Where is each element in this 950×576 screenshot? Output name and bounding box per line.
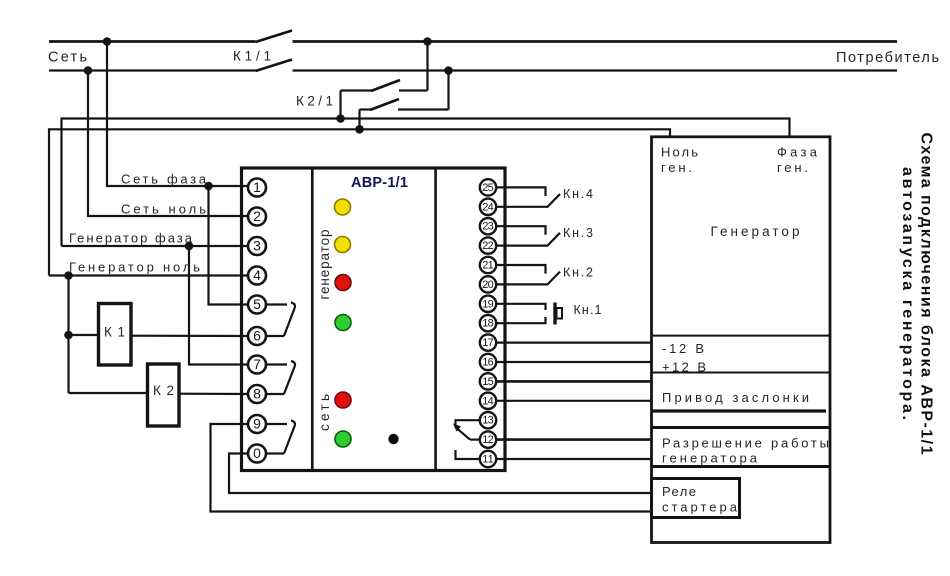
contact 13-12 with arrow (456, 420, 481, 439)
svg-text:Кн.2: Кн.2 (563, 266, 593, 280)
pin numbers 25-11 (482, 182, 494, 466)
contact K2/1 upper: left stub (341, 89, 373, 91)
node: junction on phase line (x=107) (103, 37, 112, 46)
svg-text:24: 24 (482, 201, 494, 213)
block АВР-1/1 left divider (311, 168, 314, 471)
svg-text:Генератор фаза: Генератор фаза (69, 231, 193, 246)
wire: junction down feeding K1 and K2 coils (67, 276, 69, 394)
wire: mains neutral down to terminal 2 (88, 71, 248, 217)
generator box divider above enable section (652, 426, 831, 429)
terminals 1-10 (248, 179, 266, 463)
svg-text:19: 19 (482, 298, 494, 310)
pin numbers 1-10 (253, 179, 261, 461)
wire: K2/1 upper to phase junction (426, 42, 428, 91)
terminal 15 (480, 373, 496, 389)
svg-text:22: 22 (482, 240, 494, 252)
terminal 8 (248, 385, 266, 403)
terminal 4 (248, 267, 266, 285)
relay coil K1 (99, 304, 132, 366)
wire: K2/1 upper down to generator phase bus (339, 91, 341, 119)
wire: K2/1 lower down to generator neutral bus (358, 110, 360, 130)
contact K2/1 lower: right stub (398, 108, 449, 110)
terminal 16 (480, 354, 496, 370)
svg-text:13: 13 (482, 415, 494, 427)
svg-text:Кн.4: Кн.4 (563, 187, 593, 201)
contact between terminals 7-8 (266, 361, 295, 394)
terminal 11 (480, 451, 496, 467)
terminal 21 (480, 257, 496, 273)
wire: terminal 14 to damper drive (496, 400, 652, 402)
wire: generator phase to terminal 3 (62, 245, 249, 247)
svg-text:Сеть ноль: Сеть ноль (121, 202, 206, 217)
terminal 17 (480, 334, 496, 350)
terminal 5 (248, 296, 266, 314)
wire: generator neutral to terminal 4 (49, 274, 248, 276)
button Кн.2 wires (496, 265, 560, 285)
wire: to K2 coil (69, 392, 148, 394)
wire: terminal 15 to damper drive (496, 380, 652, 383)
svg-text:К2/1: К2/1 (296, 94, 333, 109)
stub from terminal 11 (456, 450, 481, 459)
block АВР-1/1 outline (242, 168, 506, 471)
svg-text:7: 7 (253, 356, 261, 372)
contact K2/1 upper: blade (371, 80, 400, 91)
node: junction on Генератор ноль wire (64, 271, 73, 280)
terminal 10 (248, 445, 266, 463)
svg-text:0: 0 (253, 445, 261, 461)
starter relay box (652, 479, 740, 518)
wire: generator neutral bus (y=129.3) (49, 129, 670, 275)
wire: mains neutral line to consumer (293, 69, 898, 71)
terminal 19 (480, 296, 496, 312)
svg-text:20: 20 (482, 279, 494, 291)
svg-text:5: 5 (253, 296, 261, 312)
button Кн.1 actuator (557, 308, 563, 319)
button Кн.4 wires (496, 187, 560, 207)
svg-text:генератора: генератора (662, 451, 758, 466)
terminal 24 (480, 199, 496, 215)
svg-text:2: 2 (253, 208, 261, 224)
wire: junction down to terminal 5 (209, 186, 249, 305)
wire: terminal 17 to -12V (496, 342, 652, 344)
wire: junction to K1 coil (69, 334, 99, 336)
node: junction on generator phase bus (336, 114, 345, 123)
LED yellow 1 (335, 199, 351, 215)
svg-text:Потребитель: Потребитель (836, 50, 939, 66)
wire: K1 coil to terminal 6 (131, 335, 248, 337)
black indicator dot (388, 434, 398, 444)
svg-text:Привод заслонки: Привод заслонки (662, 390, 809, 405)
svg-text:18: 18 (482, 318, 494, 330)
svg-text:23: 23 (482, 221, 494, 233)
svg-text:1: 1 (253, 179, 261, 195)
wire: terminal 9 to starter relay (211, 424, 653, 512)
svg-text:6: 6 (253, 328, 261, 344)
node: junction at K1 coil row (64, 331, 73, 340)
button Кн.1 wires (496, 304, 546, 323)
wire: K2 coil to terminal 8 (179, 393, 248, 395)
terminal 1 (248, 179, 266, 197)
contact between terminals 5-6 (266, 303, 295, 337)
LED yellow 2 (335, 237, 351, 253)
svg-text:9: 9 (253, 416, 261, 432)
generator box outline (652, 137, 831, 543)
svg-text:14: 14 (482, 395, 494, 407)
node: junction on Сеть фаза wire (204, 182, 213, 191)
svg-text:Кн.3: Кн.3 (563, 226, 593, 240)
node: junction on generator neutral bus (355, 125, 364, 134)
contact between terminals 9-10 (266, 421, 295, 454)
svg-text:Кн.1: Кн.1 (574, 303, 602, 317)
terminal 13 (480, 412, 496, 428)
wire: mains phase line to consumer (293, 40, 898, 43)
wire: junction down to terminal 7 (189, 246, 248, 365)
button Кн.1 plate (553, 303, 556, 325)
svg-text:генератор: генератор (317, 230, 332, 300)
generator box divider above -12V (652, 335, 831, 337)
terminals 25-11 (480, 179, 496, 467)
terminal 7 (248, 356, 266, 374)
arrowhead on contact 13-12 (453, 424, 461, 432)
svg-text:16: 16 (482, 357, 494, 369)
node: junction on neutral line (x=88) (84, 66, 93, 75)
wire: K2/1 lower to neutral junction (447, 71, 449, 110)
svg-text:АВР-1/1: АВР-1/1 (351, 175, 408, 191)
svg-text:Сеть: Сеть (48, 50, 87, 66)
contact K1/1 upper blade (256, 31, 293, 43)
relay coil K2 (148, 364, 180, 426)
terminal 25 (480, 179, 496, 195)
wire: mains phase line top-left (49, 40, 256, 43)
svg-text:Генератор: Генератор (711, 224, 800, 239)
wire: terminal 16 to +12V (496, 361, 652, 363)
svg-text:12: 12 (482, 434, 494, 446)
svg-text:Сеть фаза: Сеть фаза (121, 172, 207, 187)
svg-text:Схема подключения блока АВР-1/: Схема подключения блока АВР-1/1 (918, 133, 935, 455)
terminal 3 (248, 237, 266, 255)
svg-text:Реле: Реле (662, 484, 696, 499)
contact K2/1 upper: right stub (399, 89, 428, 91)
terminal 23 (480, 218, 496, 234)
node: junction on phase line (x=427.5) (423, 37, 432, 46)
LED green 2 (335, 431, 351, 447)
terminal 6 (248, 327, 266, 345)
svg-text:15: 15 (482, 376, 494, 388)
svg-text:17: 17 (482, 337, 494, 349)
node: junction on neutral line (x=448.5) (444, 66, 453, 75)
svg-text:4: 4 (253, 267, 261, 283)
wire: terminal 10 to starter relay (229, 454, 652, 494)
wire: mains phase down to terminal 1 (107, 42, 248, 187)
terminal 12 (480, 431, 496, 447)
contact K2/1 lower: blade (370, 99, 399, 110)
contact K2/1 lower: left stub (360, 108, 372, 110)
LED red 1 (335, 275, 351, 291)
generator box divider below damper drive (652, 409, 827, 412)
svg-text:11: 11 (482, 454, 494, 466)
terminal 22 (480, 237, 496, 253)
svg-text:25: 25 (482, 182, 494, 194)
svg-text:3: 3 (253, 238, 261, 254)
generator box divider below +12V (652, 372, 831, 374)
svg-text:Разрешение работы: Разрешение работы (662, 436, 829, 451)
wire: terminal 12 to generator enable (496, 438, 652, 441)
generator box divider below enable section (652, 465, 831, 468)
svg-text:21: 21 (482, 260, 494, 272)
button Кн.3 wires (496, 226, 560, 246)
wire: terminal 11 to generator enable (496, 458, 652, 460)
terminal 9 (248, 415, 266, 433)
svg-text:-12 В: -12 В (662, 341, 704, 356)
block АВР-1/1 right divider (434, 168, 437, 471)
terminal 2 (248, 208, 266, 226)
wire: mains neutral line top-left (49, 69, 256, 71)
wire: generator phase bus (y=118.5) (62, 119, 790, 247)
terminal 14 (480, 393, 496, 409)
terminal 20 (480, 276, 496, 292)
terminal 18 (480, 315, 496, 331)
contact K1/1 lower blade (256, 60, 293, 72)
node: junction on Генератор фаза wire (185, 242, 194, 251)
svg-text:К1/1: К1/1 (233, 49, 271, 64)
LED green 1 (335, 315, 351, 331)
svg-text:стартера: стартера (662, 500, 738, 515)
svg-text:автозапуска генератора.: автозапуска генератора. (899, 167, 916, 420)
LED red 2 (335, 392, 351, 408)
svg-text:8: 8 (253, 386, 261, 402)
